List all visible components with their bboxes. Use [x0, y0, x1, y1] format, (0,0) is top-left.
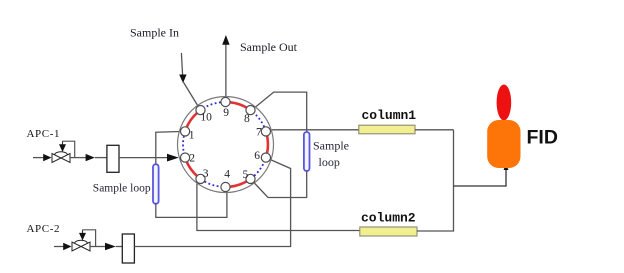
port 1 — [181, 127, 190, 136]
svg-text:FID: FID — [527, 127, 558, 149]
rotor red arc 6-7 — [266, 136, 269, 153]
wire junction to FID — [454, 167, 507, 186]
sample loop left (blue tube) — [153, 164, 159, 204]
wire APC-2 bypass loop — [83, 230, 96, 247]
svg-text:7: 7 — [256, 127, 262, 139]
rotor blue dotted arc 9-10 — [205, 102, 221, 107]
wire port 3 to column2 — [197, 179, 360, 231]
regulator APC-1 setpoint arrow (down) — [62, 141, 64, 144]
svg-text:8: 8 — [244, 113, 250, 125]
column1 tube — [359, 125, 415, 134]
filter/restrictor rectangle APC-1 — [107, 145, 119, 172]
wire right sample loop bottom to port 5 — [251, 171, 307, 198]
svg-text:APC-1: APC-1 — [27, 128, 61, 140]
arrowhead into FID (up) — [504, 164, 509, 170]
rotor red arc 4-5 — [230, 182, 246, 187]
port 3 — [196, 174, 205, 183]
regulator APC-2 setpoint arrow (down) — [82, 230, 84, 233]
arrowhead sample-out (up) — [222, 35, 229, 45]
port 5 — [246, 174, 255, 183]
svg-text:Sample loop: Sample loop — [93, 183, 151, 195]
arrowhead sample-in (down) — [179, 75, 186, 84]
port 2 — [181, 153, 190, 162]
rotor red arc 10-1 — [187, 113, 197, 127]
port 10 — [196, 106, 205, 115]
wire diagonal port 6 stub — [266, 158, 291, 169]
svg-text:10: 10 — [200, 112, 212, 124]
svg-text:6: 6 — [254, 150, 260, 162]
svg-text:Sample In: Sample In — [130, 26, 179, 40]
regulator APC-2 diaphragm dome — [75, 240, 88, 243]
rotor blue dotted arc 5-6 — [254, 162, 264, 176]
port 4 — [221, 182, 230, 191]
svg-text:5: 5 — [243, 169, 249, 181]
wire APC-1 to port 2 — [119, 157, 168, 159]
port 9 — [221, 97, 230, 106]
svg-text:2: 2 — [189, 153, 195, 165]
wire sample-in arrow line — [181, 53, 182, 75]
wire port 8 loop over to right sample loop — [251, 92, 307, 132]
wire port 7 to column1 — [266, 130, 272, 131]
wire left sample loop bottom to port 4 — [156, 187, 227, 217]
wire sample-out vertical from port 9 — [225, 44, 227, 102]
sample loop right (blue tube) — [304, 132, 310, 171]
arrowhead APC-1 inlet (right) — [43, 154, 51, 161]
svg-text:APC-2: APC-2 — [27, 223, 61, 235]
rotor blue dotted arc 3-4 — [205, 182, 221, 187]
port 8 — [246, 106, 255, 115]
arrowhead APC-1 outlet (right) — [86, 154, 95, 161]
filter/restrictor rectangle APC-2 — [122, 234, 134, 263]
regulator APC-1 bowtie valve — [52, 154, 70, 163]
regulator APC-1 diaphragm dome — [55, 152, 68, 155]
svg-text:4: 4 — [224, 169, 230, 181]
wire port 1 to left sample loop top — [156, 131, 185, 165]
port 6 — [261, 153, 270, 162]
FID body (orange) — [487, 120, 520, 168]
svg-text:column2: column2 — [361, 211, 416, 226]
rotor red arc 8-9 — [230, 102, 246, 107]
wire column1 to junction — [415, 129, 454, 131]
rotor red arc 2-3 — [187, 162, 197, 176]
svg-text:9: 9 — [223, 107, 229, 119]
arrowhead into port 2 (right) — [167, 154, 179, 162]
valve outer circle — [178, 97, 274, 193]
rotor blue dotted arc 1-2 — [182, 136, 185, 153]
svg-text:column1: column1 — [362, 108, 417, 123]
svg-text:loop: loop — [319, 155, 340, 169]
svg-text:Sample Out: Sample Out — [240, 40, 298, 54]
wire sample-in diagonal to port 10 — [183, 82, 200, 110]
wire APC-1 inlet stub — [33, 157, 44, 159]
rotor blue dotted arc 7-8 — [254, 113, 264, 127]
wire APC-2 inlet stub — [54, 246, 64, 248]
port 7 — [261, 127, 270, 136]
wire APC-2 to port 6 riser — [134, 168, 290, 247]
wire APC-2 outlet — [90, 246, 106, 248]
arrowhead APC-2 outlet (right) — [105, 243, 116, 250]
regulator APC-2 bowtie valve — [72, 242, 90, 251]
wire APC-1 outlet — [70, 157, 86, 159]
wire column2 to junction riser — [417, 130, 454, 231]
wire APC-1 bypass loop — [63, 141, 75, 157]
arrowhead APC-2 inlet (right) — [63, 243, 71, 250]
svg-text:3: 3 — [203, 168, 209, 180]
svg-text:Sample: Sample — [313, 139, 349, 153]
svg-text:1: 1 — [189, 130, 195, 142]
column2 tube — [360, 227, 417, 236]
FID flame (red) — [497, 85, 512, 121]
